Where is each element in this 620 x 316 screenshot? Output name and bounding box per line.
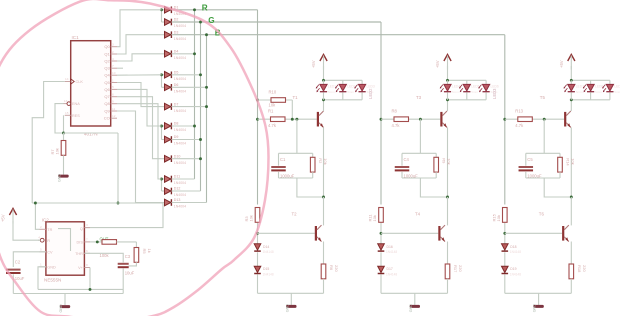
wire [173, 86, 207, 88]
wire anode pair [161, 126, 163, 140]
wire LED top rail [571, 79, 610, 81]
svg-text:RES: RES [72, 114, 80, 118]
junction [205, 105, 208, 108]
ground [59, 294, 70, 313]
junction [199, 138, 202, 141]
wire [504, 252, 506, 266]
wire stage bottom rail [505, 292, 572, 294]
wire [380, 223, 382, 244]
diode D14 [254, 244, 274, 254]
junction [193, 125, 196, 128]
svg-text:R17: R17 [453, 265, 458, 273]
resistor R18 [569, 264, 587, 279]
svg-text:TR: TR [47, 228, 52, 232]
IC1 pin Q4 (pin 10) [104, 71, 117, 78]
svg-text:4017N: 4017N [84, 131, 98, 136]
transistor T2 [292, 212, 322, 242]
LED LED9 [602, 80, 620, 100]
svg-text:1N4148: 1N4148 [263, 250, 274, 254]
resistor R1 [268, 109, 285, 128]
svg-text:Q9: Q9 [104, 109, 110, 114]
svg-text:7: 7 [112, 64, 114, 68]
wire [570, 279, 572, 294]
net B bus line [173, 34, 505, 36]
wire [380, 252, 382, 266]
capacitor C3 [118, 254, 135, 276]
resistor R8 [392, 109, 409, 128]
wire cap feed [543, 119, 545, 153]
junction [322, 196, 325, 199]
svg-text:CLK: CLK [76, 80, 84, 84]
junction [419, 118, 422, 121]
resistor R14 [558, 157, 576, 172]
resistor R11 [368, 208, 384, 223]
svg-text:D13: D13 [174, 198, 181, 202]
wire top resistor row [258, 99, 293, 101]
wire loop left [401, 153, 403, 165]
svg-text:14: 14 [65, 77, 69, 81]
IC2 pin THR (pin 6) [75, 249, 90, 256]
wire ENA net [55, 104, 64, 133]
wire [257, 252, 259, 266]
IC1 pin Q8 (pin 9) [104, 100, 117, 107]
LED LED7 [564, 80, 585, 100]
IC2 pin R (pin 4) [38, 236, 50, 243]
junction [62, 132, 65, 135]
svg-text:10k: 10k [571, 158, 576, 164]
svg-text:15: 15 [65, 111, 69, 115]
svg-text:Q4: Q4 [104, 73, 110, 78]
svg-text:R18: R18 [577, 265, 582, 273]
junction [256, 232, 259, 235]
wire [173, 125, 195, 127]
IC1 pin Q6 (pin 5) [104, 85, 117, 92]
LED LED8 [583, 80, 604, 100]
svg-text:R14: R14 [566, 158, 571, 166]
svg-text:GND: GND [47, 266, 56, 270]
wire base row [505, 118, 564, 120]
wire [173, 53, 195, 55]
svg-text:4: 4 [38, 236, 40, 240]
svg-text:CO: CO [104, 116, 110, 121]
wire [63, 155, 65, 163]
svg-text:LED1: LED1 [328, 85, 336, 89]
wire loop bottom [526, 177, 560, 179]
wire IC1 output to diode [117, 97, 162, 159]
diode D19 [502, 266, 522, 276]
LED LED2 [335, 80, 356, 100]
svg-text:LED2: LED2 [368, 88, 373, 99]
transistor T5 [540, 95, 571, 128]
junction [570, 79, 573, 82]
resistor R2 [310, 157, 328, 172]
svg-text:D17: D17 [387, 267, 393, 271]
wire +5V feed [570, 66, 572, 80]
IC2 pin CV (pin 5) [40, 247, 54, 254]
svg-text:10k: 10k [372, 215, 377, 221]
svg-text:D18: D18 [510, 245, 516, 249]
svg-text:1N4148: 1N4148 [263, 273, 274, 277]
svg-text:10uF: 10uF [15, 276, 25, 281]
junction [503, 118, 506, 121]
svg-text:1N4148: 1N4148 [386, 250, 397, 254]
IC1 pin Q2 (pin 4) [104, 57, 117, 64]
svg-text:10: 10 [112, 71, 116, 75]
capacitor C4 [395, 157, 418, 179]
junction [160, 8, 163, 11]
diode D3 [162, 30, 187, 41]
junction [446, 98, 449, 101]
svg-text:D3: D3 [174, 30, 179, 34]
svg-text:6: 6 [86, 249, 88, 253]
svg-text:GND: GND [409, 304, 413, 313]
diode D9 [162, 135, 187, 146]
wire [380, 275, 382, 294]
svg-text:C4: C4 [404, 157, 410, 162]
wire reset rail [64, 132, 119, 134]
svg-text:1: 1 [112, 78, 114, 82]
capacitor C5 [519, 157, 542, 179]
junction [199, 21, 202, 24]
wire [291, 100, 293, 119]
svg-text:+5V: +5V [1, 214, 6, 222]
svg-text:D8: D8 [174, 122, 179, 126]
IC2 pin V+ (pin 8) [78, 263, 90, 270]
LED LED3 [354, 80, 375, 100]
LED LED1 [316, 80, 337, 100]
svg-text:D6: D6 [174, 83, 179, 87]
IC2 pin Q (pin 3) [80, 223, 90, 231]
svg-text:R1: R1 [268, 109, 274, 114]
svg-text:R10: R10 [269, 89, 277, 94]
svg-text:ENA: ENA [72, 102, 80, 106]
svg-text:10k: 10k [447, 158, 452, 164]
junction [256, 118, 259, 121]
svg-text:GND: GND [58, 173, 62, 182]
resistor R5 [134, 248, 152, 263]
svg-text:D5: D5 [174, 71, 179, 75]
capacitor C1 [271, 157, 294, 179]
resistor R15 [491, 208, 507, 223]
wire loop top [402, 152, 436, 154]
wire LED bottom rail [448, 99, 487, 101]
wire stage bottom rail [381, 292, 448, 294]
svg-text:1N4004: 1N4004 [174, 56, 186, 60]
wire [173, 158, 201, 160]
ground [409, 293, 420, 312]
transistor T3 [416, 95, 447, 128]
diode D16 [378, 244, 398, 254]
svg-text:R: R [202, 3, 208, 12]
svg-text:D11: D11 [174, 175, 180, 179]
wire R column [194, 10, 196, 179]
svg-text:GND: GND [59, 304, 63, 313]
junction [322, 98, 325, 101]
+5V supply [559, 55, 575, 70]
svg-text:Q0: Q0 [104, 44, 110, 49]
wire [173, 139, 201, 141]
wire G column [200, 22, 202, 191]
wire stage bottom rail [258, 292, 324, 294]
junction [205, 86, 208, 89]
svg-text:10k: 10k [269, 103, 277, 108]
junction [291, 118, 294, 121]
transistor T4 [415, 212, 445, 242]
wire cap bottom feed [420, 178, 447, 197]
svg-text:1N4004: 1N4004 [174, 128, 186, 132]
wire V+ net [89, 268, 91, 290]
svg-text:5mm: 5mm [614, 90, 620, 94]
wire RES net [63, 115, 65, 133]
svg-text:1N4148: 1N4148 [386, 273, 397, 277]
svg-text:10uF: 10uF [125, 270, 135, 275]
svg-text:LED9: LED9 [614, 85, 620, 89]
wire base row 2 [258, 232, 315, 234]
svg-text:Q6: Q6 [104, 87, 110, 92]
IC2 internal wire [58, 229, 71, 251]
svg-text:1N4004: 1N4004 [174, 161, 186, 165]
diode D13 [162, 198, 187, 209]
wire cap feed [419, 119, 421, 153]
wire [63, 133, 65, 141]
svg-text:1N4004: 1N4004 [174, 37, 186, 41]
svg-text:R8: R8 [392, 109, 398, 114]
svg-text:LED6: LED6 [491, 85, 499, 89]
wire emitter 2 [447, 242, 449, 265]
svg-text:5: 5 [40, 247, 42, 251]
IC2 pin TR (pin 2) [40, 225, 53, 232]
svg-text:1N4148: 1N4148 [510, 250, 521, 254]
junction [199, 157, 202, 160]
svg-text:1N4004: 1N4004 [174, 77, 186, 81]
IC1 pin Q1 (pin 2) [104, 50, 117, 57]
svg-text:5: 5 [112, 85, 114, 89]
svg-text:R9: R9 [442, 158, 447, 164]
svg-text:4.7k: 4.7k [392, 123, 401, 128]
diode D12 [162, 187, 187, 198]
wire [122, 269, 124, 294]
svg-text:Q3: Q3 [104, 66, 110, 71]
svg-text:Q5: Q5 [104, 80, 110, 85]
wire loop left lower [401, 172, 403, 178]
wire +5V feed [447, 66, 449, 80]
wire stage 1 input column [257, 10, 259, 205]
svg-text:3: 3 [112, 43, 114, 47]
wire [173, 202, 207, 204]
wire [173, 74, 201, 76]
svg-text:THR: THR [75, 252, 83, 256]
wire IC1 output to diode [117, 54, 162, 61]
wire collector 2 [570, 197, 572, 225]
svg-text:1N4004: 1N4004 [174, 193, 186, 197]
svg-text:NE555N: NE555N [44, 278, 61, 283]
wire base row [258, 118, 317, 120]
svg-text:+5V: +5V [435, 60, 440, 68]
wire [117, 133, 119, 203]
wire cap bottom feed [544, 178, 571, 197]
wire cap feed [296, 119, 298, 153]
svg-text:IC1: IC1 [72, 35, 80, 40]
svg-text:Q: Q [80, 227, 83, 231]
wire [135, 242, 137, 248]
IC IC1 4017N counter [71, 35, 111, 126]
capacitor C2 [6, 260, 25, 282]
svg-text:Q7: Q7 [104, 94, 110, 99]
resistor R13 [515, 109, 532, 128]
wire collector [323, 100, 325, 111]
wire [257, 275, 259, 294]
junction [89, 288, 92, 291]
wire base row [381, 118, 440, 120]
svg-text:1k: 1k [147, 249, 152, 253]
wire loop bottom [279, 177, 313, 179]
svg-text:T6: T6 [539, 212, 545, 217]
wire DIS net [90, 241, 102, 243]
wire B column [206, 35, 208, 203]
diode D17 [378, 266, 398, 276]
+5V supply [435, 55, 451, 70]
svg-text:1: 1 [40, 262, 42, 266]
svg-text:R6: R6 [329, 265, 334, 271]
wire base row 2 [381, 232, 438, 234]
junction [256, 99, 259, 102]
svg-text:T5: T5 [540, 95, 546, 100]
IC1 pin Q5 (pin 1) [104, 78, 117, 85]
diode D11 [162, 175, 187, 186]
wire gnd rail B [13, 293, 123, 295]
svg-text:9: 9 [112, 100, 114, 104]
diode D10 [162, 154, 187, 165]
wire base row 2 [505, 232, 562, 234]
wire IC1 output to diode [117, 104, 162, 179]
diode D7 [162, 102, 187, 113]
+5V supply [311, 55, 327, 70]
svg-text:C5: C5 [527, 157, 533, 162]
wire CLK net [32, 82, 64, 204]
svg-text:1N4004: 1N4004 [174, 90, 186, 94]
wire collector 2 [323, 197, 325, 225]
diode D1 [162, 6, 187, 17]
wire anode pair [161, 10, 163, 22]
diode D6 [162, 83, 187, 94]
svg-text:R13: R13 [515, 109, 523, 114]
junction [446, 196, 449, 199]
wire CV net [13, 252, 46, 267]
junction [199, 73, 202, 76]
transistor T6 [539, 212, 569, 242]
svg-text:5mm: 5mm [595, 90, 602, 94]
svg-text:10k: 10k [496, 215, 501, 221]
junction [117, 202, 120, 205]
junction [193, 8, 196, 11]
svg-text:D9: D9 [174, 135, 179, 139]
wire THR net [84, 253, 123, 262]
diode D8 [162, 122, 187, 133]
svg-text:LED5: LED5 [471, 85, 479, 89]
junction [570, 98, 573, 101]
wire loop left lower [525, 172, 527, 178]
junction [380, 232, 383, 235]
highlight circle overlay [0, 0, 268, 316]
svg-text:1N4004: 1N4004 [174, 24, 186, 28]
svg-text:7: 7 [86, 237, 88, 241]
svg-text:LED4: LED4 [452, 85, 460, 89]
svg-text:10k: 10k [55, 148, 60, 154]
junction [34, 202, 37, 205]
svg-text:1N4004: 1N4004 [174, 181, 186, 185]
wire loop left lower [278, 172, 280, 178]
wire loop right [312, 153, 314, 157]
wire IC1 output to diode [117, 83, 162, 107]
junction [322, 79, 325, 82]
diode D5 [162, 71, 187, 82]
wire stage 3 input column [504, 35, 506, 205]
svg-text:6: 6 [112, 93, 114, 97]
IC1 pin Q7 (pin 6) [104, 93, 117, 100]
svg-text:1N4004: 1N4004 [174, 109, 186, 113]
junction [543, 118, 546, 121]
wire +5V feed [323, 66, 325, 80]
wire loop top [279, 152, 313, 154]
IC IC2 NE555 timer [42, 218, 85, 276]
svg-text:5mm: 5mm [576, 90, 583, 94]
wire emitter [570, 127, 572, 197]
ground [533, 293, 544, 312]
svg-text:2: 2 [112, 50, 114, 54]
diode D4 [162, 50, 187, 61]
svg-text:T1: T1 [293, 95, 299, 100]
svg-text:T4: T4 [415, 212, 421, 217]
diode D2 [162, 18, 187, 29]
IC1 pin CLK (pin 14) [65, 77, 84, 84]
IC2 pin DIS (pin 7) [77, 237, 90, 244]
resistor R3 [244, 208, 260, 223]
LED LED6 [478, 80, 499, 100]
wire IC2 GND net [38, 267, 46, 290]
wire loop right [559, 153, 561, 157]
svg-text:R5: R5 [142, 249, 147, 255]
wire LED top rail [324, 79, 363, 81]
svg-text:5mm: 5mm [328, 90, 335, 94]
junction [193, 52, 196, 55]
svg-text:LED7: LED7 [576, 85, 584, 89]
svg-text:220: 220 [458, 265, 463, 272]
wire [312, 172, 314, 178]
wire [447, 279, 449, 294]
net R bus line [173, 9, 258, 11]
svg-text:D10: D10 [174, 154, 181, 158]
IC1 pin Q0 (pin 3) [104, 43, 117, 50]
junction [295, 118, 298, 121]
svg-text:D15: D15 [263, 267, 269, 271]
junction [570, 196, 573, 199]
junction [160, 73, 163, 76]
svg-text:1N4004: 1N4004 [174, 205, 186, 209]
wire IC1 output to diode [117, 111, 162, 203]
wire [173, 190, 201, 192]
resistor R17 [445, 264, 463, 279]
junction [380, 118, 383, 121]
wire anode pair [161, 75, 163, 88]
wire loop right [435, 153, 437, 157]
wire anode pair [161, 179, 163, 191]
wire LED bottom rail [571, 99, 610, 101]
svg-text:R: R [47, 239, 50, 243]
svg-text:10k: 10k [249, 215, 254, 221]
diode D18 [502, 244, 522, 254]
svg-text:1N4148: 1N4148 [510, 273, 521, 277]
svg-text:D19: D19 [510, 267, 516, 271]
